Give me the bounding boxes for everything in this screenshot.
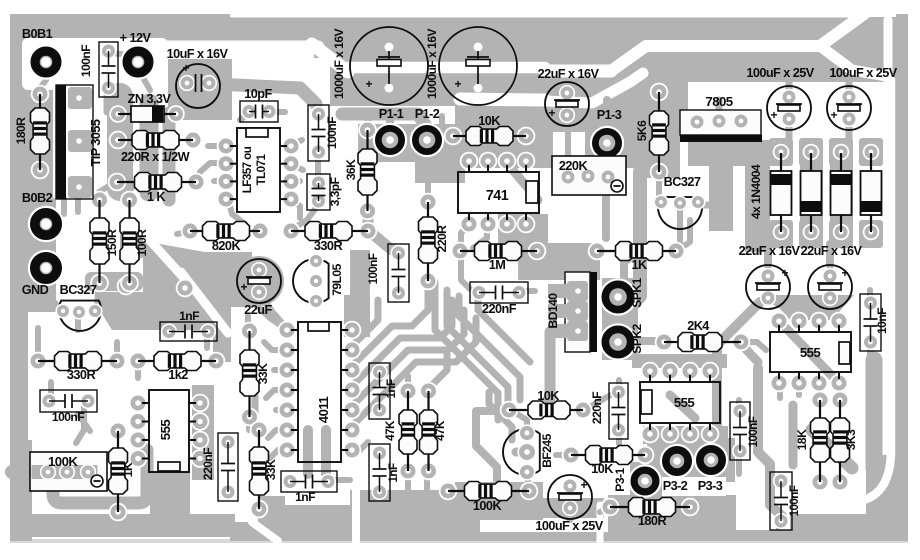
svg-text:33K: 33K [256, 363, 270, 384]
svg-text:P3-2: P3-2 [663, 479, 688, 493]
svg-text:10K: 10K [591, 462, 614, 476]
svg-text:+: + [770, 108, 777, 122]
svg-text:4011: 4011 [316, 397, 331, 424]
svg-text:1 K: 1 K [147, 190, 166, 204]
svg-text:SPK1: SPK1 [630, 277, 644, 307]
svg-text:1nF: 1nF [387, 463, 400, 482]
svg-text:1000uF x 16V: 1000uF x 16V [425, 28, 439, 99]
svg-text:820K: 820K [212, 239, 242, 253]
svg-text:ZN 3,3V: ZN 3,3V [128, 92, 172, 106]
svg-text:47K: 47K [384, 420, 397, 441]
svg-text:330R: 330R [67, 368, 96, 382]
svg-text:B0B2: B0B2 [22, 191, 53, 205]
svg-text:5K6: 5K6 [635, 120, 649, 141]
svg-text:1nF: 1nF [179, 309, 199, 323]
svg-text:1k2: 1k2 [168, 368, 188, 382]
svg-text:100nF: 100nF [747, 416, 760, 447]
svg-text:4x 1N4004: 4x 1N4004 [749, 164, 763, 219]
svg-text:BC327: BC327 [60, 283, 97, 297]
svg-text:220nF: 220nF [201, 448, 215, 480]
svg-text:100nF: 100nF [367, 253, 380, 284]
svg-text:BD140: BD140 [546, 293, 560, 329]
svg-text:330R: 330R [314, 239, 343, 253]
svg-text:1000uF x 16V: 1000uF x 16V [332, 28, 346, 99]
svg-text:100nF: 100nF [788, 485, 801, 516]
svg-text:SPK2: SPK2 [630, 323, 644, 353]
svg-text:180R: 180R [14, 117, 28, 145]
svg-text:3K3: 3K3 [844, 429, 858, 450]
svg-text:22uF: 22uF [244, 303, 272, 317]
svg-text:220nF: 220nF [590, 392, 604, 424]
svg-text:10pF: 10pF [244, 87, 272, 101]
svg-text:P1-2: P1-2 [415, 107, 440, 121]
svg-text:47K: 47K [434, 420, 447, 441]
svg-text:TL071: TL071 [255, 154, 268, 186]
svg-text:TIP 3055: TIP 3055 [89, 119, 103, 166]
svg-text:100nF: 100nF [325, 117, 339, 149]
svg-text:555: 555 [800, 345, 821, 360]
svg-text:LF357 ou: LF357 ou [241, 146, 254, 193]
svg-text:555: 555 [158, 420, 173, 441]
svg-text:741: 741 [486, 188, 509, 204]
svg-text:150R: 150R [105, 229, 119, 257]
svg-text:GND: GND [22, 283, 49, 297]
svg-text:+: + [240, 280, 247, 294]
svg-text:22uF x 16V: 22uF x 16V [538, 67, 600, 81]
svg-text:33K: 33K [264, 459, 278, 480]
svg-text:+: + [454, 77, 461, 91]
svg-text:10nF: 10nF [875, 308, 889, 334]
svg-text:1M: 1M [489, 258, 506, 272]
svg-text:P1-1: P1-1 [379, 107, 404, 121]
svg-text:22uF x 16V: 22uF x 16V [801, 244, 863, 258]
svg-text:100nF: 100nF [52, 410, 84, 424]
svg-text:1K: 1K [121, 462, 135, 477]
svg-text:100K: 100K [48, 454, 78, 469]
svg-text:1nF: 1nF [295, 490, 315, 504]
svg-text:100uF x 25V: 100uF x 25V [535, 519, 603, 533]
svg-text:+: + [365, 77, 372, 91]
svg-text:100nF: 100nF [79, 45, 93, 77]
svg-text:10K: 10K [478, 114, 501, 128]
svg-text:36K: 36K [344, 159, 358, 180]
svg-text:220R: 220R [435, 225, 449, 253]
svg-text:180R: 180R [638, 514, 667, 528]
svg-text:P3-3: P3-3 [698, 479, 723, 493]
svg-text:100R: 100R [135, 229, 149, 257]
svg-text:100uF x 25V: 100uF x 25V [746, 66, 814, 80]
svg-text:BC327: BC327 [664, 175, 701, 189]
svg-text:7805: 7805 [705, 94, 732, 109]
svg-text:+: + [548, 106, 555, 120]
svg-text:220K: 220K [559, 159, 589, 173]
svg-text:100uF x 25V: 100uF x 25V [829, 66, 897, 80]
svg-text:+ 12V: + 12V [120, 31, 152, 45]
svg-text:79L05: 79L05 [330, 263, 344, 295]
svg-text:+: + [182, 61, 189, 75]
svg-text:BF245: BF245 [540, 433, 554, 467]
svg-text:220R x 1/2W: 220R x 1/2W [121, 150, 190, 164]
svg-text:220nF: 220nF [482, 302, 517, 316]
svg-text:+: + [841, 266, 848, 280]
svg-text:P3-1: P3-1 [613, 468, 627, 492]
svg-text:555: 555 [674, 395, 695, 410]
svg-text:10K: 10K [537, 389, 560, 403]
svg-text:10uF x 16V: 10uF x 16V [167, 47, 229, 61]
svg-text:P1-3: P1-3 [597, 108, 622, 122]
svg-text:2K4: 2K4 [687, 319, 709, 333]
svg-text:+: + [580, 478, 587, 492]
svg-text:1K: 1K [631, 258, 648, 272]
svg-text:18K: 18K [795, 429, 809, 450]
svg-text:3,3pF: 3,3pF [328, 177, 342, 206]
svg-text:1nF: 1nF [385, 379, 398, 398]
svg-text:+: + [781, 266, 788, 280]
svg-text:+: + [830, 108, 837, 122]
svg-text:100K: 100K [473, 499, 503, 513]
svg-text:22uF x 16V: 22uF x 16V [739, 244, 801, 258]
svg-text:B0B1: B0B1 [22, 27, 53, 41]
